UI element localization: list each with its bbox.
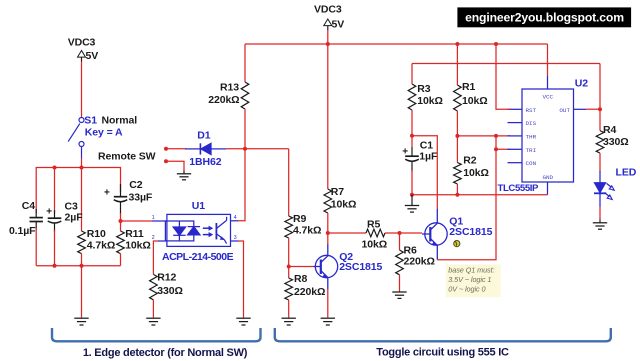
node C3 bottom junction	[53, 264, 57, 268]
ground under R8	[282, 318, 296, 325]
wire VCC rail	[245, 43, 548, 45]
node R9/R8/Q2-base	[287, 265, 291, 269]
node R3/C1/Q1-collector	[410, 134, 414, 138]
ground under LED	[593, 223, 607, 229]
svg-text:R10: R10	[87, 228, 106, 240]
wire C1 bottom to gnd rail	[411, 170, 413, 195]
svg-text:R2: R2	[463, 155, 476, 167]
wire D1 row down to R9	[288, 149, 290, 216]
ground under U1 pin3	[236, 318, 250, 325]
wire OUT pin row	[586, 108, 600, 110]
svg-text:2SC1815: 2SC1815	[339, 261, 382, 273]
svg-text:10kΩ: 10kΩ	[463, 167, 489, 179]
svg-text:+: +	[104, 187, 110, 198]
resistor R13 220k	[244, 44, 246, 82]
svg-text:Key = A: Key = A	[85, 127, 123, 139]
wire R6 bottom to ground	[399, 275, 401, 292]
svg-text:LED: LED	[616, 167, 637, 179]
wire VDC3-left down to switch S1	[81, 62, 83, 118]
svg-text:0V ~ logic 0: 0V ~ logic 0	[448, 284, 485, 293]
svg-text:5V: 5V	[332, 18, 345, 30]
wire lower-left rail	[36, 265, 120, 267]
wire VDC3-right to rail	[327, 30, 329, 44]
wire R4 bottom to LED	[599, 153, 601, 171]
svg-text:R1: R1	[462, 81, 475, 93]
resistor R8 220k	[288, 267, 290, 279]
svg-text:220kΩ: 220kΩ	[294, 286, 325, 298]
resistor R2 10k	[456, 136, 458, 163]
node VCC/VDC3/R7	[326, 42, 330, 46]
svg-text:1µF: 1µF	[419, 151, 438, 163]
wire U1 pin 3 to ground	[231, 240, 239, 242]
svg-text:engineer2you.blogspot.com: engineer2you.blogspot.com	[465, 10, 624, 24]
node OUT/R4	[598, 107, 602, 111]
wire R12 bottom to ground	[152, 300, 154, 318]
terminal Remote SW (D1 side)	[164, 147, 168, 151]
svg-text:R12: R12	[157, 272, 176, 284]
LED	[594, 171, 614, 207]
svg-text:GND: GND	[542, 174, 553, 181]
svg-text:RST: RST	[526, 107, 537, 114]
wire remote ground stub	[166, 161, 184, 170]
svg-text:R5: R5	[367, 219, 380, 231]
svg-text:VDC3: VDC3	[314, 3, 342, 15]
svg-text:3.5V ~ logic 1: 3.5V ~ logic 1	[448, 275, 491, 284]
node S1/R10 junction	[80, 166, 84, 170]
wire R7 bottom to Q2 collector node	[327, 213, 329, 233]
ground under R6	[392, 292, 406, 298]
svg-text:R9: R9	[293, 213, 306, 225]
svg-text:R4: R4	[603, 124, 616, 136]
ground at Remote SW	[177, 174, 191, 180]
node R5/R6/Q1-base	[398, 231, 402, 235]
wire S1 to upper-left rail	[81, 159, 83, 168]
node R1/R2/THR	[455, 134, 459, 138]
switch S1 (Key = A)	[68, 118, 84, 159]
power VDC3 (left supply)	[68, 36, 99, 62]
resistor R4 330	[599, 109, 601, 130]
svg-text:10kΩ: 10kΩ	[125, 240, 151, 252]
diode D1 1BH62	[185, 143, 226, 154]
wire OUT rail (R3 top to OUT)	[412, 63, 600, 65]
svg-text:OUT: OUT	[559, 107, 570, 114]
banner engineer2you.blogspot.com	[457, 7, 631, 27]
node TRI junction	[494, 147, 498, 151]
capacitor C3 2uF (polarized)	[48, 210, 62, 232]
node R2/gnd rail	[455, 193, 459, 197]
svg-text:3: 3	[234, 235, 237, 241]
svg-text:base Q1 must:: base Q1 must:	[448, 265, 494, 274]
svg-text:TLC555IP: TLC555IP	[498, 183, 540, 194]
wire RST to VCC rail	[496, 44, 510, 109]
resistor R1 10k	[456, 44, 458, 85]
svg-text:C2: C2	[129, 179, 142, 191]
svg-text:2µF: 2µF	[65, 212, 84, 224]
capacitor C4 0.1uF	[30, 209, 43, 230]
resistor R5 10k	[366, 229, 385, 237]
svg-text:U2: U2	[575, 77, 588, 89]
ground under R10 rail	[74, 318, 88, 325]
wire to ground (edge detector)	[81, 266, 83, 318]
node C2/R11/pin1	[119, 219, 123, 223]
svg-text:4.7kΩ: 4.7kΩ	[87, 240, 115, 252]
transistor Q1 2SC1815	[422, 209, 447, 260]
svg-text:CON: CON	[526, 160, 537, 167]
svg-text:330Ω: 330Ω	[603, 136, 629, 148]
wire C4 bottom	[35, 228, 37, 266]
op-amp U2 TLC555IP timer	[508, 76, 587, 195]
wire remote terminal to D1	[166, 148, 186, 150]
wire U1 pin 2 to R12	[158, 240, 167, 242]
node C1/gnd rail	[410, 193, 414, 197]
wire LED to ground	[599, 207, 601, 220]
note base Q1 must	[446, 264, 501, 297]
svg-text:33µF: 33µF	[129, 191, 153, 203]
svg-text:+: +	[46, 207, 52, 218]
ground at C1	[405, 206, 419, 213]
bracket: edge detector section	[52, 328, 261, 341]
svg-text:VDC3: VDC3	[68, 36, 96, 48]
svg-text:ACPL-214-500E: ACPL-214-500E	[162, 251, 234, 263]
wire TRI link and down to Q1 emitter	[496, 136, 510, 149]
wire 555 ground rail	[412, 194, 548, 196]
svg-text:DIS: DIS	[526, 120, 537, 127]
svg-text:R3: R3	[417, 83, 430, 95]
svg-text:C4: C4	[22, 200, 35, 212]
svg-text:Toggle circuit using 555 IC: Toggle circuit using 555 IC	[376, 346, 509, 358]
wire R11 bottom	[120, 254, 122, 266]
svg-text:10kΩ: 10kΩ	[462, 95, 488, 107]
ground under Q2	[321, 318, 335, 325]
node C3 top junction	[53, 166, 57, 170]
svg-text:0.1µF: 0.1µF	[9, 225, 36, 237]
svg-text:4.7kΩ: 4.7kΩ	[293, 225, 321, 237]
wire base Q2	[289, 266, 314, 268]
svg-text:S1: S1	[84, 115, 97, 127]
svg-text:C1: C1	[420, 139, 433, 151]
bracket: toggle circuit section	[275, 328, 611, 341]
wire C2 bottom to U1 pin1 node	[120, 213, 122, 221]
svg-text:1: 1	[152, 215, 155, 221]
resistor R6 220k	[399, 233, 401, 250]
node D1/R13/pin4	[243, 147, 247, 151]
resistor R3 10k	[408, 84, 416, 110]
comment-ball icon near Q1	[454, 241, 460, 247]
svg-text:U1: U1	[192, 200, 205, 212]
svg-text:D1: D1	[197, 129, 210, 141]
power VDC3 (right supply)	[314, 3, 344, 30]
resistor R11 10k	[120, 221, 122, 231]
wire R5 row	[328, 232, 366, 234]
resistor R7 10k	[327, 44, 329, 189]
wire Q2 collector	[327, 233, 329, 245]
wire node to U1 pin 1	[121, 220, 153, 222]
node VCC/RST	[494, 42, 498, 46]
svg-text:TRI: TRI	[526, 147, 537, 154]
svg-text:1. Edge detector (for Normal S: 1. Edge detector (for Normal SW)	[83, 347, 248, 359]
resistor R12 330	[150, 274, 158, 299]
wire U1 pin 4 up to D1/R13 node	[231, 220, 239, 222]
node R10 bottom junction	[80, 264, 84, 268]
svg-text:220kΩ: 220kΩ	[208, 94, 239, 106]
transistor Q2 2SC1815	[314, 245, 338, 290]
svg-text:10kΩ: 10kΩ	[417, 95, 443, 107]
svg-text:R13: R13	[220, 82, 239, 94]
svg-text:10kΩ: 10kΩ	[362, 239, 388, 251]
wire THR row	[457, 135, 510, 137]
ground under R12	[146, 318, 160, 325]
svg-text:R8: R8	[294, 273, 307, 285]
resistor R10 4.7k	[78, 231, 86, 254]
svg-text:R11: R11	[125, 228, 144, 240]
wire R8 bottom to ground	[288, 300, 290, 318]
svg-text:2SC1815: 2SC1815	[449, 226, 492, 238]
op-amp U1 ACPL-214-500E optocoupler	[165, 214, 230, 246]
svg-text:2: 2	[152, 235, 155, 241]
capacitor C2 33uF (polarized)	[114, 184, 127, 215]
wire R2 bottom to gnd rail	[456, 184, 458, 195]
wire R13 bottom	[244, 109, 246, 149]
resistor R9 4.7k	[285, 216, 293, 238]
wire upper-left rail	[36, 168, 120, 214]
svg-text:R7: R7	[331, 186, 344, 198]
wire R3 bottom to C1 node	[411, 110, 413, 136]
svg-text:Normal: Normal	[102, 115, 138, 127]
svg-text:VCC: VCC	[542, 93, 553, 100]
node R7/Q2-collector/R5	[326, 231, 330, 235]
svg-text:10kΩ: 10kΩ	[331, 199, 357, 211]
svg-text:+: +	[402, 146, 408, 157]
terminal Remote SW (ground side)	[164, 159, 168, 163]
wire R10 bottom	[81, 254, 83, 266]
wire D1 to R13/R9	[226, 148, 289, 150]
wire R1 bottom to THR node	[456, 111, 458, 136]
svg-text:5V: 5V	[86, 50, 99, 62]
svg-text:330Ω: 330Ω	[157, 285, 183, 297]
svg-text:THR: THR	[526, 133, 537, 140]
node VCC/R1	[455, 42, 459, 46]
svg-text:Remote SW: Remote SW	[98, 150, 156, 162]
node THR/TRI link top	[494, 134, 498, 138]
wire R9 bottom to base node	[288, 238, 290, 267]
wire C1 node to Q1 collector	[412, 136, 437, 209]
svg-text:1BH62: 1BH62	[189, 156, 221, 168]
capacitor C1 1uF (polarized)	[411, 136, 413, 147]
wire VCC pin	[547, 44, 549, 76]
svg-text:220kΩ: 220kΩ	[404, 256, 435, 268]
wire C3 bottom	[54, 230, 56, 266]
wire Q2 emitter to ground	[327, 289, 329, 318]
